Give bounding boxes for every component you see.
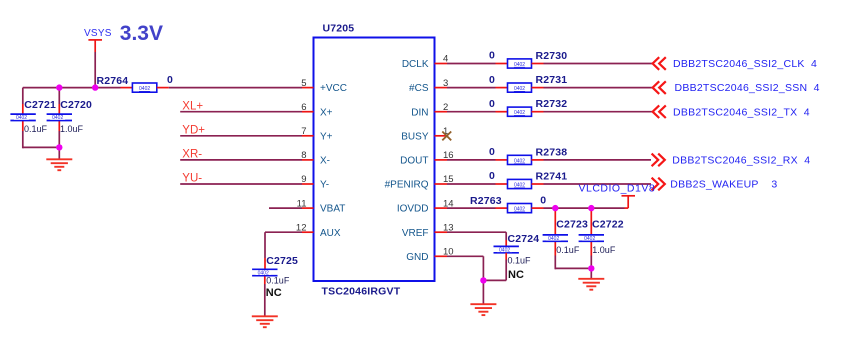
svg-text:C2723: C2723: [556, 218, 588, 230]
C2721 designator: [24, 99, 56, 111]
R2730 designator: [536, 50, 568, 62]
capacitor C2722: [579, 235, 604, 242]
R2763 designator: [470, 195, 502, 207]
wire C2721 branch vertical: [22, 88, 24, 149]
wire C2724 to GND net: [483, 253, 506, 281]
wire pin to resistor R2738: [447, 159, 496, 161]
svg-text:0: 0: [489, 170, 495, 182]
off-page port chevron >>: [652, 178, 665, 191]
wire pin to resistor R2741: [447, 183, 496, 185]
R2738 value 0: [489, 146, 495, 158]
svg-text:C2720: C2720: [60, 99, 92, 111]
svg-text:XR-: XR-: [182, 149, 202, 161]
svg-text:DOUT: DOUT: [400, 156, 428, 167]
U7205 right pin names: [385, 59, 429, 263]
svg-text:VLCDIO_D1V8: VLCDIO_D1V8: [579, 183, 656, 195]
svg-text:TSC2046IRGVT: TSC2046IRGVT: [322, 286, 401, 298]
U7205 left pin names: [320, 83, 347, 239]
capacitor C2720: [47, 114, 72, 121]
svg-text:R2738: R2738: [536, 146, 568, 158]
C2720 value 1.0uF: [60, 124, 84, 134]
off-page port chevron <<: [653, 81, 666, 94]
wire bottom joining caps: [23, 146, 60, 148]
wire pin to resistor R2730: [447, 63, 496, 65]
svg-text:0.1uF: 0.1uF: [556, 245, 580, 255]
wire C2720 branch vertical: [58, 88, 60, 148]
wire pin 14 to resistor R2763: [447, 207, 496, 209]
junction dots (magenta): [56, 84, 594, 283]
svg-text:VBAT: VBAT: [320, 204, 345, 215]
wire C2725 to ground: [264, 276, 266, 316]
wire to R2764 output toward pin 5: [169, 87, 302, 89]
pin numbers right side: [443, 54, 454, 258]
svg-text:DBB2TSC2046_SSI2_RX 4: DBB2TSC2046_SSI2_RX 4: [672, 155, 810, 167]
wire pin to resistor R2732: [447, 111, 496, 113]
3.3V net voltage label: [120, 22, 163, 45]
power symbol VLCDIO_D1V8: [622, 196, 636, 208]
svg-text:R2730: R2730: [536, 50, 568, 62]
ground (C2725): [252, 316, 278, 327]
svg-text:C2722: C2722: [592, 218, 624, 230]
wire VSYS vertical to junction: [94, 52, 96, 88]
resistor R2741: [496, 179, 544, 188]
svg-text:0402: 0402: [514, 182, 525, 188]
svg-text:0: 0: [540, 195, 546, 207]
off-page port chevron <<: [653, 105, 666, 118]
C2725 value 0.1uF: [266, 276, 290, 286]
wire R2731 to port: [544, 87, 653, 89]
C2724 value 0.1uF: [508, 256, 532, 266]
resistor R2731: [496, 83, 544, 92]
svg-text:Y-: Y-: [320, 180, 329, 191]
svg-text:X-: X-: [320, 156, 330, 167]
C2725 NC mark: [266, 287, 282, 299]
svg-text:YU-: YU-: [182, 173, 202, 185]
wire pin to resistor R2731: [447, 87, 496, 89]
off-page port chevron >>: [652, 154, 665, 167]
svg-text:0402: 0402: [514, 207, 525, 213]
svg-text:0402: 0402: [514, 158, 525, 164]
C2725 designator: [266, 255, 298, 267]
svg-text:X+: X+: [320, 107, 333, 118]
pin stubs left (red): [302, 88, 314, 233]
svg-text:U7205: U7205: [323, 23, 355, 35]
svg-text:+VCC: +VCC: [320, 83, 347, 94]
svg-text:DBB2TSC2046_SSI2_SSN 4: DBB2TSC2046_SSI2_SSN 4: [675, 82, 820, 94]
R2741 value 0: [489, 170, 495, 182]
svg-text:#CS: #CS: [409, 83, 429, 94]
TSC2046IRGVT part value label: [322, 286, 401, 298]
wire AUX pin 12 to C2725: [265, 232, 302, 268]
svg-text:DCLK: DCLK: [402, 59, 429, 70]
wire stem to ground: [58, 147, 60, 159]
svg-text:0.1uF: 0.1uF: [266, 276, 290, 286]
svg-text:0: 0: [489, 50, 495, 62]
wire VREF pin 13 to C2724: [447, 232, 506, 246]
R2730 value 0: [489, 50, 495, 62]
svg-text:0: 0: [489, 74, 495, 86]
svg-text:1.0uF: 1.0uF: [592, 245, 616, 255]
svg-text:1.0uF: 1.0uF: [60, 124, 84, 134]
R2741 designator: [536, 171, 568, 183]
node YU- label: [182, 173, 202, 185]
svg-text:R2763: R2763: [470, 195, 502, 207]
svg-text:#PENIRQ: #PENIRQ: [385, 180, 429, 191]
svg-text:0402: 0402: [514, 86, 525, 92]
capacitor C2723: [543, 235, 568, 242]
svg-text:0402: 0402: [52, 115, 63, 121]
node YD+ label: [182, 125, 205, 137]
capacitor C2725: [252, 269, 277, 276]
svg-text:0402: 0402: [139, 86, 150, 92]
node XL+ label: [182, 100, 203, 112]
node XR- label: [182, 149, 202, 161]
svg-text:0402: 0402: [584, 236, 595, 242]
R2731 value 0: [489, 74, 495, 86]
svg-text:C2725: C2725: [266, 255, 298, 267]
C2724 designator: [508, 233, 540, 245]
off-page port chevron <<: [653, 57, 666, 70]
svg-text:0.1uF: 0.1uF: [508, 256, 532, 266]
svg-text:GND: GND: [406, 252, 428, 263]
svg-text:R2764: R2764: [97, 75, 129, 87]
ground (pin 10): [470, 304, 496, 315]
svg-text:0402: 0402: [16, 115, 27, 121]
R2764 value 0: [167, 74, 173, 86]
capacitor C2724: [494, 246, 519, 253]
C2721 value 0.1uF: [24, 124, 48, 134]
node net label DBB2TSC2046_SSI2_TX: [673, 106, 810, 118]
svg-text:0402: 0402: [499, 248, 510, 254]
node net label DBB2S_WAKEUP: [670, 179, 777, 191]
pin numbers left side: [296, 78, 307, 234]
svg-text:Y+: Y+: [320, 131, 333, 142]
C2722 designator: [592, 218, 624, 230]
C2723 designator: [556, 218, 588, 230]
wire C2722 branch vertical: [590, 208, 592, 268]
svg-text:DBB2TSC2046_SSI2_CLK 4: DBB2TSC2046_SSI2_CLK 4: [673, 58, 817, 70]
svg-text:DIN: DIN: [411, 107, 428, 118]
wire main horizontal VCC rail: [23, 87, 121, 89]
svg-text:XL+: XL+: [182, 100, 203, 112]
node VSYS label: [84, 28, 112, 39]
svg-text:3.3V: 3.3V: [120, 22, 163, 45]
wire C2723 branch vertical: [554, 208, 556, 269]
resistor R2730: [496, 59, 544, 68]
R2764 designator: [97, 75, 129, 87]
R2763 value 0: [540, 195, 546, 207]
node VLCDIO_D1V8 label: [579, 183, 656, 195]
svg-text:C2724: C2724: [508, 233, 540, 245]
R2738 designator: [536, 146, 568, 158]
R2732 value 0: [489, 98, 495, 110]
svg-text:0: 0: [489, 146, 495, 158]
capacitor C2721: [10, 114, 35, 121]
wire GND pin 10 to ground: [447, 256, 483, 304]
wire IOVDD rail to power symbol: [544, 207, 629, 209]
wire R2732 to port: [544, 111, 653, 113]
wire net YU- to pin: [180, 183, 302, 185]
wire R2738 to port: [544, 159, 652, 161]
svg-text:0402: 0402: [514, 110, 525, 116]
svg-text:NC: NC: [266, 287, 282, 299]
resistor R2763: [496, 204, 544, 213]
svg-text:R2741: R2741: [536, 171, 568, 183]
svg-text:0402: 0402: [514, 62, 525, 68]
svg-text:R2732: R2732: [536, 98, 568, 110]
svg-text:C2721: C2721: [24, 99, 56, 111]
svg-text:DBB2TSC2046_SSI2_TX 4: DBB2TSC2046_SSI2_TX 4: [673, 106, 810, 118]
node net label DBB2TSC2046_SSI2_RX: [672, 155, 810, 167]
node net label DBB2TSC2046_SSI2_SSN: [675, 82, 820, 94]
wire net XR- to pin: [180, 159, 302, 161]
svg-text:VREF: VREF: [402, 228, 429, 239]
C2722 value 1.0uF: [592, 245, 616, 255]
svg-text:0: 0: [489, 98, 495, 110]
svg-text:R2731: R2731: [536, 74, 568, 86]
op-amp U1 : IC U7205 TSC2046IRGVT body: [314, 38, 435, 282]
wire VBAT pin 11 stub: [269, 207, 302, 209]
power symbol VSYS 3.3V: [88, 40, 102, 52]
resistor R2764: [121, 83, 169, 92]
wire R2741 to port: [544, 183, 652, 185]
svg-text:0: 0: [167, 74, 173, 86]
svg-text:NC: NC: [508, 269, 524, 281]
wire net XL+ to pin: [180, 111, 302, 113]
svg-text:DBB2S_WAKEUP 3: DBB2S_WAKEUP 3: [670, 179, 777, 191]
svg-text:IOVDD: IOVDD: [397, 204, 429, 215]
resistor R2738: [496, 155, 544, 164]
svg-text:0.1uF: 0.1uF: [24, 124, 48, 134]
C2723 value 0.1uF: [556, 245, 580, 255]
resistor R2732: [496, 107, 544, 116]
no-connect X on BUSY pin 1: [442, 132, 451, 141]
wire stem to ground right: [590, 268, 592, 278]
svg-text:AUX: AUX: [320, 228, 341, 239]
U7205 reference designator label: [323, 23, 355, 35]
svg-text:YD+: YD+: [182, 125, 205, 137]
wire net YD+ to pin: [180, 135, 302, 137]
svg-text:VSYS: VSYS: [84, 28, 112, 39]
node net label DBB2TSC2046_SSI2_CLK: [673, 58, 817, 70]
svg-text:BUSY: BUSY: [401, 131, 429, 142]
pin stubs right (red): [435, 64, 448, 257]
ground (C2722/C2723): [578, 279, 604, 290]
R2732 designator: [536, 98, 568, 110]
ground (C2721/C2720): [46, 159, 72, 170]
R2731 designator: [536, 74, 568, 86]
wire R2730 to port: [544, 63, 653, 65]
C2724 NC mark: [508, 269, 524, 281]
svg-text:0402: 0402: [548, 236, 559, 242]
C2720 designator: [60, 99, 92, 111]
wire joining C2723/C2722 bottoms: [555, 267, 591, 269]
